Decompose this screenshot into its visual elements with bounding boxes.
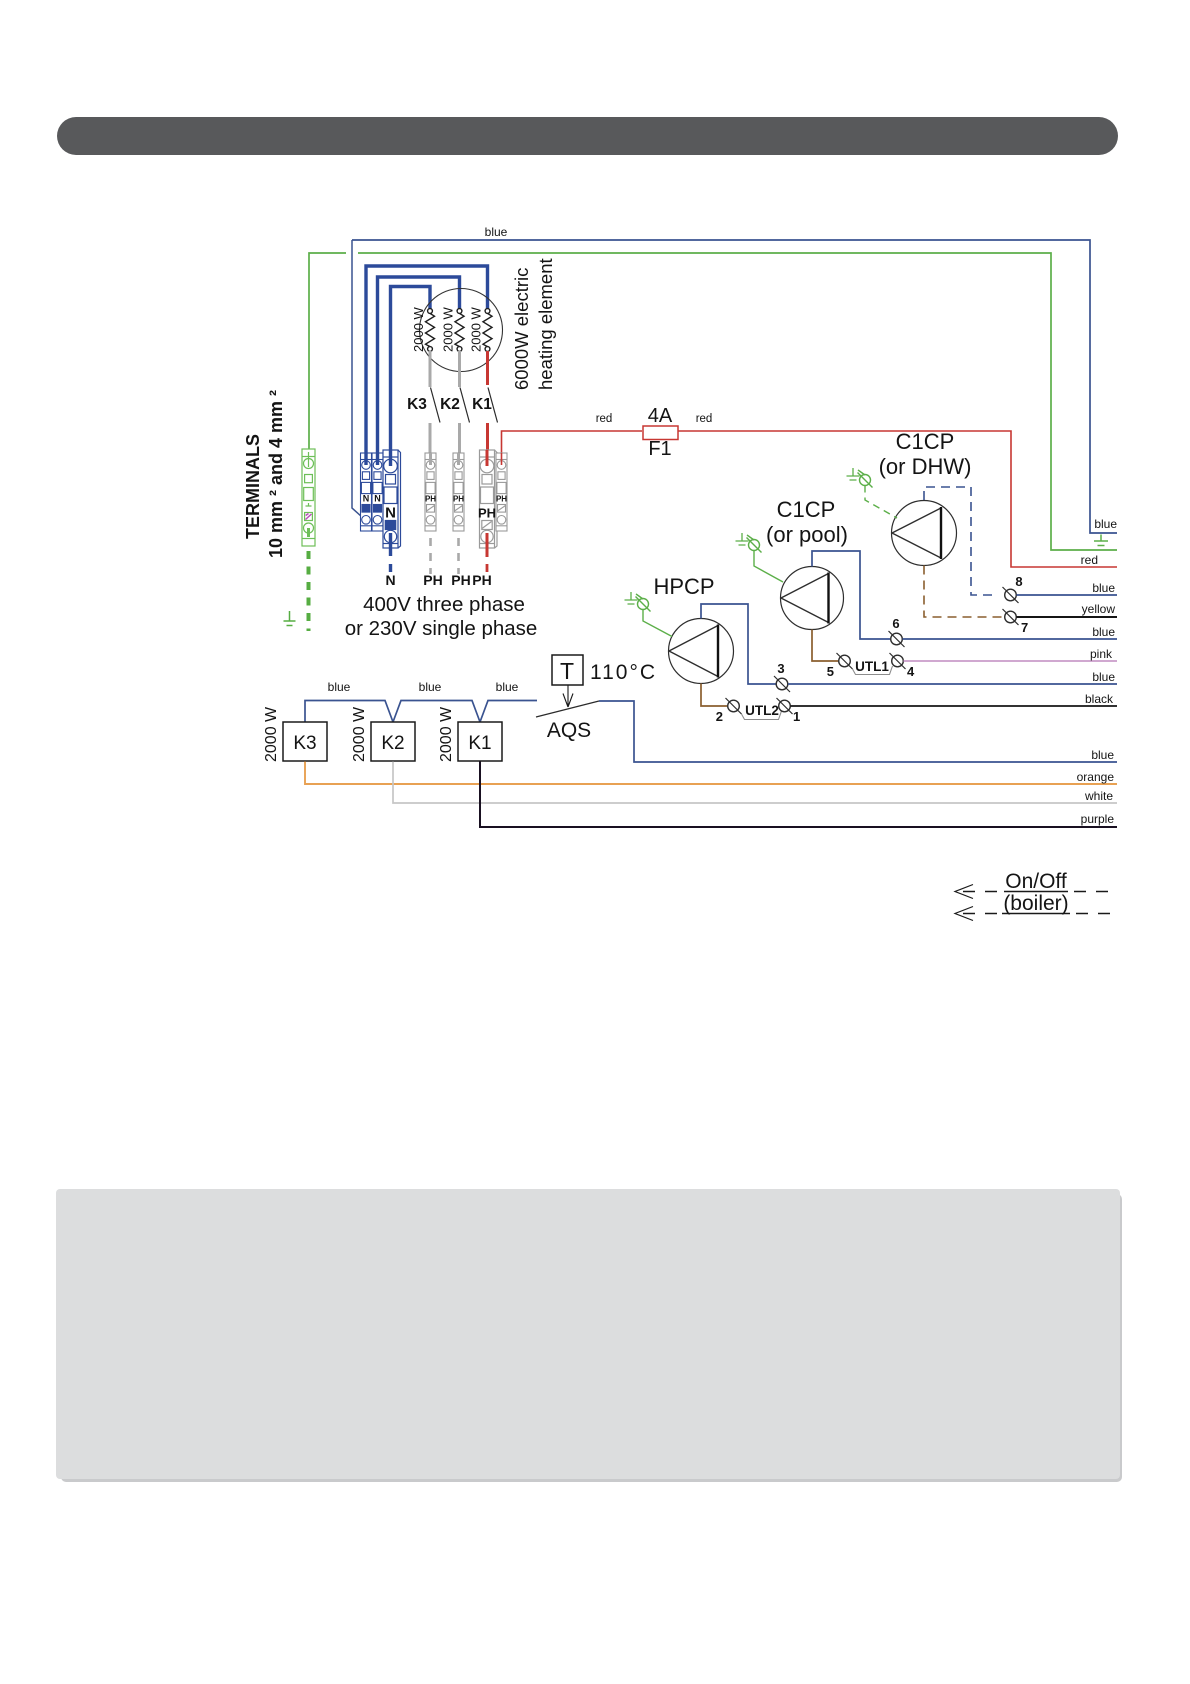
- svg-text:blue: blue: [1092, 625, 1115, 639]
- connector 3: [774, 661, 790, 692]
- thermostat arrow: [563, 685, 573, 707]
- svg-text:T: T: [560, 658, 574, 684]
- terminal PH3 gray large: [480, 450, 498, 548]
- wire: thin blue neutral tap to terminal: [352, 240, 362, 517]
- wire: blue row3 to edge: [788, 683, 1117, 685]
- svg-text:N: N: [374, 494, 381, 504]
- svg-text:UTL2: UTL2: [745, 703, 779, 718]
- svg-text:2000 W: 2000 W: [351, 706, 368, 762]
- svg-text:TERMINALS: TERMINALS: [243, 434, 263, 539]
- wire: white K2 to edge: [393, 762, 1117, 804]
- thermostat T 110C: [552, 655, 657, 685]
- relay coil K1: [438, 706, 502, 762]
- earth connector pool: [736, 533, 762, 553]
- svg-text:K3: K3: [293, 733, 316, 754]
- svg-text:K2: K2: [440, 396, 460, 413]
- wire: gray from R2 to contact K2: [458, 351, 461, 387]
- svg-text:PH: PH: [472, 572, 491, 588]
- wire: gray contact K3 to terminal PH1: [429, 423, 432, 458]
- fuse F1 4A: [643, 405, 678, 460]
- wire: blue N lead stub: [389, 533, 392, 556]
- svg-text:blue: blue: [496, 680, 519, 694]
- ground symbol left: [284, 611, 296, 626]
- wire: green dashed earth to DHW pump: [865, 486, 897, 519]
- wire: red F1 circuit: [502, 431, 1118, 567]
- svg-text:blue: blue: [1091, 748, 1114, 762]
- svg-text:C1CP: C1CP: [777, 497, 836, 522]
- connector 7: [1003, 609, 1029, 635]
- svg-text:7: 7: [1021, 620, 1028, 635]
- terminal PH4 gray: [496, 453, 507, 531]
- resistor R1 2000W: [426, 309, 435, 352]
- svg-text:(boiler): (boiler): [1003, 892, 1068, 915]
- svg-text:F1: F1: [648, 438, 671, 460]
- terminal N1 blue: [361, 453, 372, 531]
- wire stub: blue into N3: [389, 450, 392, 466]
- terminal PH1 gray: [425, 453, 436, 531]
- resistor R3 2000W: [483, 309, 492, 352]
- svg-text:heating element: heating element: [535, 258, 556, 390]
- earth connector HPCP: [625, 592, 651, 612]
- wire: red PH3 dashed lead: [486, 564, 489, 572]
- svg-text:2000 W: 2000 W: [411, 306, 426, 352]
- svg-text:(or pool): (or pool): [766, 522, 848, 547]
- relay coil K3: [263, 706, 327, 762]
- wire: blue dashed DHW to connector 8: [924, 487, 998, 595]
- svg-text:1: 1: [793, 709, 800, 724]
- svg-text:2: 2: [716, 709, 723, 724]
- svg-text:110°C: 110°C: [590, 661, 657, 684]
- svg-text:PH: PH: [478, 506, 496, 521]
- connector 5: [827, 653, 853, 679]
- svg-text:PH: PH: [453, 495, 464, 504]
- svg-text:PH: PH: [451, 572, 470, 588]
- heating element enclosure circle: [420, 289, 503, 372]
- svg-text:blue: blue: [1094, 517, 1117, 531]
- svg-text:6000W electric: 6000W electric: [511, 268, 532, 390]
- wire: gray contact K2 to terminal PH2: [458, 423, 461, 458]
- svg-text:PH: PH: [423, 572, 442, 588]
- pump C1CP DHW: [879, 429, 972, 566]
- wire: blue neutral top run: [352, 225, 1117, 533]
- contact K3 blade: [431, 388, 441, 423]
- wire: blue HPCP to connector 3: [701, 604, 776, 684]
- wire: brown pool pump to connector 5: [812, 630, 838, 662]
- pump HPCP: [653, 574, 733, 684]
- svg-text:PH: PH: [496, 495, 507, 504]
- svg-text:6: 6: [892, 616, 899, 631]
- pump C1CP pool: [766, 497, 848, 630]
- connector 8: [1003, 574, 1023, 603]
- svg-text:PH: PH: [425, 495, 436, 504]
- header bar: [57, 117, 1118, 155]
- signal On/Off dashed with arrow: [955, 870, 1116, 899]
- svg-text:2000 W: 2000 W: [438, 706, 455, 762]
- svg-text:white: white: [1084, 789, 1113, 803]
- wire: green earth top run: [309, 253, 1117, 550]
- svg-text:yellow: yellow: [1082, 602, 1116, 616]
- svg-text:purple: purple: [1081, 812, 1115, 826]
- connector 6: [889, 616, 905, 647]
- relay coil K2: [351, 706, 415, 762]
- terminal N2 blue: [372, 453, 383, 531]
- wire: purple K1 to edge: [480, 762, 1117, 828]
- svg-text:red: red: [696, 413, 713, 425]
- ground symbol right: [1094, 535, 1108, 546]
- svg-text:4A: 4A: [648, 405, 673, 427]
- wire: gray dashed PH2 lead: [457, 538, 460, 574]
- link UTL1: [853, 659, 893, 675]
- connector 1: [777, 698, 801, 724]
- wire: yellow row to edge: [1017, 616, 1118, 618]
- wire: red from R3 to contact K1: [486, 351, 489, 385]
- svg-text:orange: orange: [1077, 770, 1115, 784]
- wire: blue feed terminal2 to resistor2: [378, 277, 460, 462]
- wire: blue feed terminalN to resistor1: [391, 287, 431, 463]
- wire: pink row to edge: [904, 660, 1118, 662]
- wire: blue N dashed lead: [389, 564, 392, 572]
- wire: blue row6 to edge: [903, 638, 1118, 640]
- switch AQS blade: [536, 701, 599, 717]
- terminal PE green: [302, 449, 315, 546]
- svg-text:10 mm ² and 4 mm ²: 10 mm ² and 4 mm ²: [266, 390, 286, 558]
- terminal N3 blue large: [383, 450, 401, 548]
- wire: green dashed PE lead: [307, 551, 311, 631]
- svg-text:2000 W: 2000 W: [263, 706, 280, 762]
- svg-text:blue: blue: [328, 680, 351, 694]
- connector 4: [890, 653, 916, 679]
- wire stub: blue into N2: [376, 453, 379, 465]
- svg-text:blue: blue: [419, 680, 442, 694]
- wire stub: red into PH4: [501, 453, 503, 465]
- svg-text:4: 4: [907, 664, 915, 679]
- svg-text:K1: K1: [468, 733, 491, 754]
- contact K2 blade: [460, 388, 470, 423]
- svg-text:(or DHW): (or DHW): [879, 454, 972, 479]
- signal boiler dashed with arrow: [955, 892, 1116, 921]
- wire stub: gray into PH2: [457, 453, 460, 465]
- wire: blue pool pump to connector 6: [812, 551, 890, 639]
- bottom panel shadow: [61, 1194, 1122, 1482]
- svg-text:C1CP: C1CP: [896, 429, 955, 454]
- wire: brown HPCP to connector 2: [701, 684, 727, 707]
- svg-text:or 230V single phase: or 230V single phase: [345, 617, 538, 640]
- svg-text:5: 5: [827, 664, 834, 679]
- svg-text:pink: pink: [1090, 647, 1113, 661]
- svg-text:K1: K1: [472, 396, 492, 413]
- wire: gray from R1 to contact K3: [429, 351, 432, 387]
- svg-text:red: red: [1081, 553, 1098, 567]
- wire stub: blue into N1: [364, 453, 367, 465]
- resistor R2 2000W: [455, 309, 464, 352]
- wire: gray dashed PH1 lead: [429, 538, 432, 574]
- svg-text:blue: blue: [1092, 670, 1115, 684]
- svg-text:2000 W: 2000 W: [441, 306, 456, 352]
- connector 2: [716, 698, 742, 724]
- svg-text:8: 8: [1015, 574, 1022, 589]
- svg-text:black: black: [1085, 692, 1114, 706]
- wire stub: red into PH3: [486, 450, 489, 466]
- svg-text:K3: K3: [407, 396, 427, 413]
- earth connector DHW: [847, 468, 873, 488]
- svg-text:On/Off: On/Off: [1005, 870, 1067, 893]
- wire: red PH3 lead stub: [486, 533, 489, 557]
- svg-text:blue: blue: [485, 225, 508, 239]
- wire: brown dashed DHW to connector 7: [924, 566, 1004, 618]
- wire: red contact K1 to terminal PH3: [486, 423, 489, 461]
- wire: blue row8 to edge: [1017, 594, 1118, 596]
- svg-text:N: N: [385, 505, 396, 522]
- wire: black row to edge: [791, 705, 1118, 707]
- svg-text:AQS: AQS: [547, 719, 591, 742]
- svg-text:HPCP: HPCP: [653, 574, 714, 599]
- svg-text:N: N: [385, 572, 395, 588]
- wire stub: gray into PH1: [429, 453, 432, 465]
- svg-text:UTL1: UTL1: [855, 659, 889, 674]
- link UTL2: [742, 703, 782, 720]
- wire: green earth to HPCP: [643, 610, 672, 637]
- wire: green earth to pool pump: [754, 551, 783, 583]
- wire: blue relay bus with taps: [305, 701, 537, 723]
- wire: orange K3 to edge: [305, 762, 1117, 785]
- svg-text:N: N: [363, 494, 370, 504]
- svg-text:3: 3: [777, 661, 784, 676]
- terminal PH2 gray: [453, 453, 464, 531]
- svg-text:red: red: [596, 413, 613, 425]
- svg-text:blue: blue: [1092, 581, 1115, 595]
- svg-text:2000 W: 2000 W: [469, 306, 484, 352]
- bottom panel: [56, 1189, 1120, 1479]
- contact K1 blade: [488, 388, 498, 423]
- svg-text:K2: K2: [381, 733, 404, 754]
- wire: blue AQS to edge row: [599, 701, 1117, 762]
- svg-text:400V three phase: 400V three phase: [363, 593, 525, 616]
- wire: blue feed terminal1 to resistor3: [366, 266, 488, 462]
